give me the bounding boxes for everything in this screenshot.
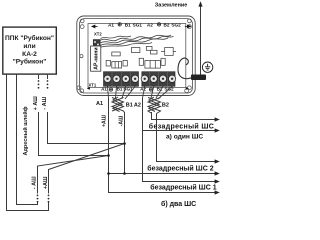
node ASH- stub dots (below panel): [47, 74, 49, 89]
svg-text:B2: B2: [164, 22, 170, 27]
arrows right side: [215, 117, 220, 194]
earth pin symbols top row: [118, 23, 161, 26]
AR-mini device lid seam: [80, 19, 193, 93]
node ASH+ stub dots (below panel): [38, 74, 40, 89]
terminal block XT1 right: [142, 72, 175, 87]
svg-text:A2: A2: [140, 87, 146, 92]
svg-text:В2: В2: [162, 102, 169, 108]
top row left arrow: [92, 25, 98, 28]
connector X2: [145, 61, 161, 69]
svg-text:ХТ2: ХТ2: [94, 32, 102, 37]
svg-text:ППК "Рубикон": ППК "Рубикон": [5, 34, 54, 42]
wire harness waves: [100, 35, 174, 48]
wire b2 bottom-left to wB junction: [49, 144, 125, 194]
svg-text:B1: B1: [125, 22, 131, 27]
svg-text:A1: A1: [101, 87, 107, 92]
jumper JP3: [139, 58, 143, 65]
svg-text:+АШ: +АШ: [43, 176, 49, 189]
twisted pair 1 braid: [112, 97, 125, 113]
wire v3 +ASH down to junction: [39, 112, 109, 156]
grounding hook wire inside case: [178, 58, 192, 79]
svg-text:- АШ: - АШ: [32, 176, 38, 189]
svg-text:+ АШ: + АШ: [33, 96, 39, 111]
jumper JP1: [106, 60, 110, 66]
wire v4 -ASH down to junction: [48, 112, 125, 144]
wire left inner loop: [17, 74, 38, 204]
bottom row right arrow: [186, 87, 189, 90]
AR-mini label box: [91, 46, 101, 71]
svg-text:безадресный ШС: безадресный ШС: [149, 122, 214, 130]
wire A (A1 +ASH) down: [109, 98, 216, 193]
svg-text:или: или: [23, 43, 35, 50]
svg-text:"Рубикон": "Рубикон": [13, 57, 47, 65]
AR-mini device outer case: [77, 16, 195, 96]
ground terminal symbol: [202, 62, 212, 72]
svg-text:SG1: SG1: [133, 22, 143, 27]
wire E down to SHS2: [157, 114, 216, 162]
wire D corner to right: [152, 112, 216, 120]
resistor R3: [146, 46, 152, 50]
wire SHS2 lower from wire A: [109, 173, 216, 175]
grounding wire with up arrow: [200, 6, 202, 75]
svg-text:б) два ШС: б) два ШС: [161, 200, 196, 208]
wire C (A2) down: [143, 98, 216, 182]
svg-text:безадресный ШС 1: безадресный ШС 1: [150, 184, 216, 192]
svg-text:КА-2: КА-2: [22, 51, 37, 58]
case screws: [77, 19, 191, 93]
svg-text:Адресный шлейф: Адресный шлейф: [22, 106, 29, 155]
bottom row left arrow: [87, 87, 90, 90]
PCB board: [88, 24, 186, 88]
resistor R1: [112, 52, 120, 56]
grounding bolt: [191, 75, 206, 81]
bottom terminal labels row: [101, 87, 174, 92]
jumper JP4: [161, 58, 165, 65]
svg-text:B1: B1: [117, 87, 123, 92]
twisted pair 1 stubs: [108, 87, 136, 100]
svg-text:-АШ: -АШ: [119, 116, 125, 127]
top row right arrow: [185, 25, 191, 28]
connector X1: [112, 62, 122, 69]
svg-text:А1: А1: [96, 101, 103, 107]
terminal block XT1 left: [104, 72, 139, 87]
svg-text:- АШ: - АШ: [42, 96, 48, 109]
panel box PPK Rubicon: [3, 27, 57, 74]
wire C branch SG line: [143, 130, 216, 132]
terminal block KT2 small: [93, 40, 100, 48]
svg-text:безадресный ШС 2: безадресный ШС 2: [147, 165, 213, 173]
resistor R4: [151, 50, 158, 54]
svg-text:Заземление: Заземление: [155, 2, 188, 8]
top terminal labels row: [108, 22, 181, 27]
svg-text:+АШ: +АШ: [102, 115, 108, 127]
jumper JP2: [123, 60, 127, 66]
wire b1 bottom-left to wA junction: [38, 156, 109, 194]
relay K1: [161, 48, 176, 56]
node dots bottom-left pair: [37, 195, 50, 203]
earth pin symbols bottom row: [109, 88, 152, 91]
svg-text:АР-мини: АР-мини: [93, 47, 99, 69]
svg-text:а) один ШС: а) один ШС: [166, 133, 203, 140]
svg-text:В1: В1: [126, 102, 133, 108]
twisted pair 2 stubs: [143, 87, 173, 100]
junction dots: [107, 142, 126, 175]
wire left outer loop: [7, 74, 49, 210]
svg-text:SG2: SG2: [171, 22, 181, 27]
resistor R2: [132, 48, 140, 53]
svg-text:A1: A1: [108, 22, 114, 27]
svg-text:ХТ1: ХТ1: [89, 83, 97, 88]
svg-text:A2: A2: [147, 22, 153, 27]
svg-text:А2: А2: [134, 102, 141, 108]
twisted pair 2 braid: [148, 97, 161, 114]
wire B (B1 -ASH) down: [124, 112, 126, 174]
